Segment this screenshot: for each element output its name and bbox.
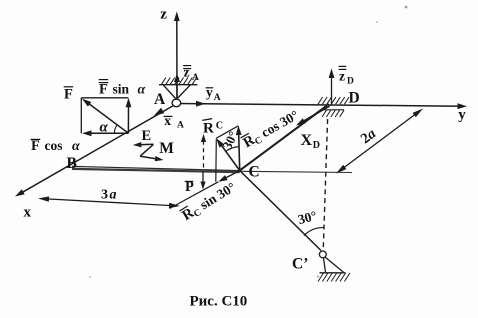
- svg-text:α: α: [100, 120, 109, 136]
- svg-text:Рис. С10: Рис. С10: [190, 294, 248, 310]
- svg-text:D: D: [347, 77, 354, 87]
- svg-text:z: z: [160, 6, 167, 22]
- svg-text:cos: cos: [45, 138, 63, 153]
- svg-text:A: A: [154, 91, 166, 108]
- svg-text:3: 3: [101, 188, 108, 203]
- svg-text:A: A: [177, 121, 184, 131]
- svg-text:B: B: [67, 155, 77, 172]
- svg-text:M: M: [159, 140, 174, 157]
- svg-text:z: z: [184, 65, 190, 80]
- svg-text:X: X: [301, 132, 313, 149]
- svg-text:F: F: [31, 138, 40, 154]
- svg-text:C’: C’: [292, 255, 308, 272]
- svg-text:E: E: [142, 128, 152, 144]
- svg-text:C: C: [249, 163, 260, 180]
- svg-text:α: α: [72, 139, 80, 154]
- svg-text:z: z: [339, 68, 345, 83]
- svg-text:F: F: [99, 81, 108, 97]
- svg-text:x: x: [164, 113, 171, 128]
- svg-text:F: F: [64, 87, 73, 103]
- svg-text:A: A: [192, 73, 199, 83]
- svg-text:C: C: [216, 121, 223, 132]
- svg-text:A: A: [214, 93, 221, 103]
- svg-text:y: y: [458, 107, 466, 123]
- svg-text:x: x: [24, 205, 32, 221]
- svg-text:sin: sin: [113, 81, 130, 96]
- svg-text:R: R: [203, 121, 214, 137]
- svg-text:D: D: [349, 89, 360, 106]
- svg-text:α: α: [138, 82, 146, 97]
- svg-text:a: a: [110, 188, 117, 203]
- svg-text:D: D: [313, 140, 320, 151]
- svg-text:y: y: [206, 85, 213, 100]
